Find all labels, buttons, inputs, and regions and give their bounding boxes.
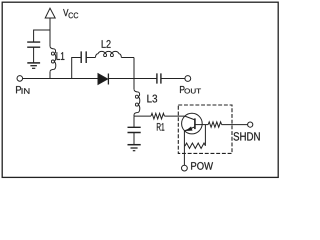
label L3 <box>147 95 157 103</box>
capacitor C-vcc plates <box>27 42 40 47</box>
wire resistor right leg up to base <box>204 125 206 146</box>
label PIN-P <box>16 86 21 93</box>
inductor L2 <box>95 54 98 58</box>
label SHDN <box>234 132 260 140</box>
wire cap to ground <box>33 47 35 63</box>
capacitor C-l3 plates <box>128 127 141 132</box>
terminal PIN circle <box>17 76 23 82</box>
ground (left) <box>27 62 40 64</box>
label POUT-OUT <box>185 89 201 94</box>
capacitor C-series plates <box>81 51 86 63</box>
wire emitter down to POW <box>183 131 185 165</box>
label L2 <box>102 40 111 48</box>
label POW <box>191 162 213 170</box>
wire VCC stem <box>49 18 51 30</box>
label R1 <box>157 123 164 131</box>
transistor Q1 emitter diagonal <box>184 127 195 131</box>
transistor Q1 base wire <box>195 124 208 126</box>
wire to SHDN terminal <box>222 124 248 126</box>
label L1 <box>57 52 65 60</box>
terminal POW circle <box>182 165 188 171</box>
wire L1 to main line <box>49 72 51 79</box>
dashed IC box <box>178 105 232 153</box>
resistor base-emitter zigzag <box>184 143 205 148</box>
wire main line right <box>161 78 185 80</box>
transistor Q1 circle <box>182 113 203 134</box>
label VCC-V <box>63 9 68 16</box>
frame border <box>2 2 278 177</box>
wire junction down to cap <box>133 116 135 127</box>
label VCC-CC <box>69 13 79 19</box>
terminal SHDN circle <box>248 122 253 127</box>
transistor Q1 base bar <box>194 118 196 129</box>
inductor L1 <box>50 46 54 49</box>
resistor SHDN zigzag <box>208 122 221 127</box>
wire L3 to junction <box>133 115 135 116</box>
label POUT-P <box>180 86 185 93</box>
wire right riser down through main to L3 <box>133 58 135 90</box>
terminal POUT circle <box>185 76 191 82</box>
inductor L3 <box>134 89 138 92</box>
ground (right) <box>128 144 141 146</box>
transistor Q1 collector diagonal <box>185 116 195 120</box>
wire cap to L2 <box>86 57 95 59</box>
wire junction to R1 <box>134 115 151 117</box>
capacitor C-out plates <box>157 73 161 83</box>
power symbol VCC triangle <box>45 8 55 18</box>
wire branch riser left <box>72 58 81 79</box>
wire branch to bypass cap <box>34 30 50 42</box>
wire VCC column to L1 <box>49 30 51 46</box>
diode D1 <box>98 74 108 85</box>
wire main line left <box>23 78 98 80</box>
wire L2 to right riser <box>121 57 134 59</box>
transistor Q1 emitter arrow <box>186 127 192 131</box>
wire main line middle <box>108 78 156 80</box>
resistor R1 <box>151 113 164 119</box>
wire cap to ground <box>133 133 135 145</box>
wire R1 to transistor collector <box>164 115 185 117</box>
label PIN-IN <box>22 88 30 94</box>
